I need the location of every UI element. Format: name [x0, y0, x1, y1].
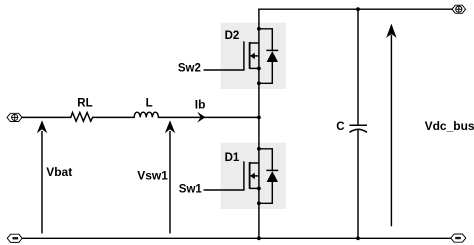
wire: main vertical leg through both MOSFETs: [258, 9, 260, 238]
wire: top rail from drain node to + terminal: [259, 8, 452, 10]
body lead: [254, 175, 259, 177]
resistor RL: [70, 113, 95, 122]
svg-text:Vsw1: Vsw1: [137, 169, 168, 183]
current arrow Ib: [197, 112, 205, 123]
svg-text:Vdc_bus: Vdc_bus: [425, 119, 474, 133]
terminal + (battery positive, left): [7, 113, 22, 121]
svg-text:C: C: [336, 121, 344, 133]
svg-text:Sw2: Sw2: [178, 63, 201, 75]
junction dot mid node: [257, 116, 261, 120]
voltage arrow Vsw1: [165, 120, 175, 233]
source lead: [250, 67, 259, 69]
capacitor C: [350, 125, 368, 132]
body diode D1: [259, 149, 278, 204]
junction dot D2 drain node: [257, 27, 261, 31]
junction dot capacitor bottom: [356, 236, 360, 240]
junction dot D1 diode bottom: [257, 201, 261, 205]
inductor L: [134, 112, 158, 117]
wire: capacitor branch lower: [357, 130, 359, 238]
gate lead Sw1: [204, 161, 244, 190]
junction dot bottom main leg: [257, 236, 261, 240]
svg-text:L: L: [146, 98, 153, 110]
svg-text:Ib: Ib: [195, 97, 206, 111]
svg-text:D2: D2: [225, 30, 240, 42]
drain lead: [250, 42, 259, 44]
voltage arrow Vdc_bus: [386, 24, 396, 227]
junction dot D2 source lead: [257, 67, 261, 71]
MOSFET Sw2 (upper switch): [204, 41, 259, 70]
junction dot D1 source lead: [257, 187, 261, 191]
terminal - (battery negative, bottom left): [7, 234, 22, 242]
body arrow of Sw2: [250, 53, 255, 60]
terminal + (dc bus positive, top right): [452, 5, 466, 13]
svg-text:RL: RL: [77, 98, 92, 110]
junction dot D1 drain node: [257, 147, 261, 151]
channel bar: [249, 162, 251, 189]
MOSFET Sw2/D2 background box: [221, 23, 286, 89]
svg-text:Vbat: Vbat: [46, 165, 72, 179]
svg-text:Sw1: Sw1: [179, 184, 203, 196]
wire: bottom rail: [23, 237, 451, 239]
voltage arrow Vbat: [37, 120, 47, 233]
junction dot D2 diode bottom: [257, 81, 261, 85]
terminal - (dc bus negative, bottom right): [451, 234, 466, 242]
MOSFET Sw1 (lower switch): [204, 161, 259, 190]
MOSFET Sw1/D1 background box: [221, 143, 286, 209]
body lead: [254, 55, 259, 57]
source lead: [250, 187, 259, 189]
wire: mid rail from left terminal to resistor: [22, 116, 70, 118]
gate lead Sw2: [204, 41, 244, 70]
channel bar: [249, 42, 251, 69]
body diode D2: [259, 29, 278, 84]
wire: inductor to mid node: [158, 116, 259, 118]
junction dot capacitor top: [356, 7, 360, 11]
svg-text:D1: D1: [225, 152, 240, 164]
body arrow of Sw1: [250, 173, 255, 180]
wire: resistor to inductor: [94, 116, 134, 118]
drain lead: [250, 162, 259, 164]
wire: capacitor branch upper: [357, 9, 359, 125]
